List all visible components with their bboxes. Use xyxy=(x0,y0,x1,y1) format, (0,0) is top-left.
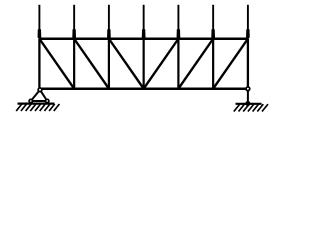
diagonal member D2 xyxy=(74,39,109,89)
load arrow P2 xyxy=(72,5,76,40)
diagonal member D3 xyxy=(109,39,144,89)
support A right hinge xyxy=(46,99,49,102)
load arrow P7 xyxy=(246,5,250,40)
support A ground hatching xyxy=(16,104,59,111)
load arrow P5 xyxy=(177,5,181,40)
support A top hinge xyxy=(38,88,42,92)
support B link xyxy=(247,89,249,104)
load arrow P1 xyxy=(38,5,42,40)
top chord xyxy=(39,38,248,41)
support A base link xyxy=(31,100,47,102)
support B top hinge xyxy=(246,87,250,91)
vertical member V2 xyxy=(73,39,75,89)
support A ground line xyxy=(18,102,55,104)
support A right leg xyxy=(40,90,47,101)
vertical member V7 xyxy=(247,39,249,89)
vertical member V6 xyxy=(212,39,214,89)
vertical member V1 xyxy=(38,39,40,89)
diagonal member D1 xyxy=(39,39,74,89)
pin support A (left) xyxy=(16,88,59,111)
support B ground hatching xyxy=(234,104,268,111)
vertical member V4 xyxy=(143,39,145,89)
diagonal member D4 xyxy=(144,39,179,89)
load arrow P3 xyxy=(107,5,111,40)
support B ground line xyxy=(236,103,262,105)
support A left hinge xyxy=(29,99,32,102)
load arrow P4 xyxy=(142,5,146,40)
bottom chord xyxy=(39,87,248,90)
diagonal member D5 xyxy=(178,39,213,89)
diagonal member D6 xyxy=(213,39,248,89)
vertical member V3 xyxy=(108,39,110,89)
vertical member V5 xyxy=(177,39,179,89)
roller support B (right) xyxy=(234,87,268,112)
support B bottom hinge xyxy=(246,102,249,105)
load arrow P6 xyxy=(211,5,215,40)
support A left leg xyxy=(31,90,40,101)
